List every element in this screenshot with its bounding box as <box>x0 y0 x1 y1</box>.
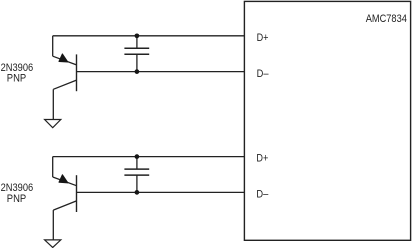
wire D- lower (Q2 base to U1 D- pin) <box>77 191 245 193</box>
IC U1 AMC7834 <box>244 1 410 240</box>
capacitor C2 <box>124 157 149 193</box>
svg-text:D+: D+ <box>257 32 269 44</box>
svg-text:D–: D– <box>257 68 270 80</box>
node junction dot upper D- <box>135 69 140 74</box>
wire D- upper (Q1 base to U1 D- pin) <box>77 71 245 73</box>
transistor Q1 2N3906 PNP <box>53 54 77 91</box>
wire D+ lower (Q2 emitter node to U1 D+ pin) <box>53 156 245 158</box>
wire D+ upper (Q1 emitter node to U1 D+ pin) <box>53 35 245 37</box>
wire Q1 emitter vertical <box>52 36 54 56</box>
svg-text:PNP: PNP <box>7 193 26 205</box>
ground (lower) <box>45 240 61 248</box>
transistor Q2 2N3906 PNP <box>53 175 77 212</box>
svg-text:D+: D+ <box>256 152 268 164</box>
svg-text:D–: D– <box>256 188 269 200</box>
node junction dot lower D- <box>135 190 140 195</box>
wire Q2 collector to ground <box>52 210 54 240</box>
svg-text:PNP: PNP <box>7 73 26 85</box>
svg-text:AMC7834: AMC7834 <box>366 13 407 25</box>
node junction dot lower D+ <box>135 154 140 159</box>
wire Q2 emitter vertical <box>52 157 54 177</box>
node junction dot upper D+ <box>135 33 140 38</box>
wire Q1 collector to ground <box>52 89 54 119</box>
ground (upper) <box>45 120 61 128</box>
capacitor C1 <box>124 36 149 72</box>
